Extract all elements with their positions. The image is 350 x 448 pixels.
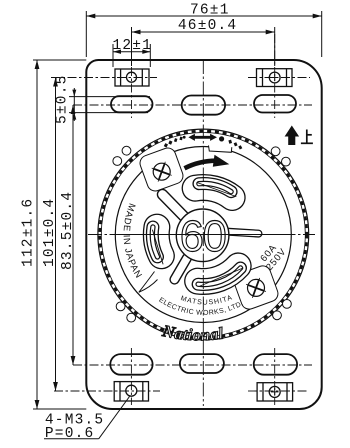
left blade slot [152, 227, 163, 264]
curved text MADE IN JAPAN [122, 190, 145, 285]
svg-text:60: 60 [180, 213, 226, 261]
face screw top-left [148, 158, 175, 185]
receptacle ear bump bottom-left b [127, 313, 136, 322]
centerline top screws horizontal [51, 77, 157, 79]
top-left oval knockout [111, 96, 153, 112]
screw pocket top-left [138, 146, 185, 193]
receptacle ear bump top-right a [271, 147, 280, 156]
arm upper-left [163, 195, 185, 217]
thick clockwise arrow [185, 161, 217, 169]
mounting plate outline [86, 60, 321, 409]
kanji UE (up) drawn with strokes [301, 130, 313, 144]
bottom-right screw tab [257, 383, 293, 401]
top-right screw tab [257, 69, 293, 87]
dimension 101±0.4 (left, rotated) [42, 78, 58, 392]
bottom-left oval knockout [110, 354, 152, 375]
dimension 76±1 [86, 3, 321, 58]
centerline top-right screw vertical [274, 34, 276, 118]
National logo [156, 321, 242, 345]
centerline bottom ovals horizontal [73, 364, 312, 366]
receptacle ear bump top-right b [282, 157, 291, 166]
top-center oval knockout [182, 96, 225, 115]
centerline main horizontal [88, 234, 315, 236]
receptacle ear bump bottom-left a [116, 302, 125, 311]
receptacle outer rim circle [98, 129, 309, 340]
top blade slot [197, 183, 236, 197]
rim dot left [183, 136, 186, 139]
ring notch top [209, 142, 232, 152]
face ring circle [115, 147, 291, 323]
center hub circle [176, 209, 229, 262]
top blade slot boss [195, 187, 232, 197]
left blade slot boss [156, 227, 161, 256]
receptacle ear bump top-left a [122, 146, 131, 155]
bottom-right oval knockout [254, 354, 297, 375]
bottom blade slot [198, 268, 243, 287]
screw pocket bottom-right [232, 264, 280, 312]
rim tiny glyphs left [164, 137, 243, 150]
note 4-M3.5 P=0.6 with leader [44, 397, 130, 443]
centerline bottom screws horizontal [54, 390, 160, 392]
text 60A 250V rotated [256, 240, 288, 273]
rim tiny glyphs right [228, 140, 232, 144]
centerline bottom-left screw vertical [130, 348, 132, 405]
svg-text:P=0.6: P=0.6 [45, 426, 95, 442]
top-left screw tab [115, 69, 149, 86]
rim serration dashes [100, 131, 307, 338]
bottom blade slot boss [198, 266, 239, 282]
rim dot right [219, 136, 224, 141]
face screw bottom-right [242, 274, 269, 301]
bottom-center oval knockout [180, 354, 224, 373]
centerline bottom-right screw vertical [274, 348, 276, 405]
dimension 5±0.5 (left small, rotated) [55, 74, 151, 124]
centerline top ovals horizontal [73, 104, 312, 106]
rotation double arrow [188, 134, 217, 141]
receptacle ear bump bottom-right b [273, 311, 282, 320]
svg-text:112±1.6: 112±1.6 [21, 198, 37, 267]
svg-text:5±0.5: 5±0.5 [55, 74, 71, 124]
centerline top-left screw vertical [51, 34, 312, 405]
top-right oval knockout [254, 95, 296, 113]
svg-text:83.5±0.4: 83.5±0.4 [60, 191, 76, 270]
centerline main vertical [88, 60, 315, 406]
arm lower-left [175, 258, 188, 280]
curved text MATSUSHITA [170, 294, 242, 306]
receptacle ear bump top-left b [113, 157, 122, 166]
dimension 112±1.6 (left, rotated) [21, 60, 87, 409]
centerline solid across hub [120, 234, 290, 236]
up arrow symbol [285, 126, 300, 146]
dimension 83.5±0.4 (left, rotated) [60, 105, 76, 365]
arm right [229, 232, 259, 234]
rim inner line [101, 133, 305, 337]
curved text ELECTRIC WORKS LTD [155, 297, 254, 317]
dimension 46±0.4 [132, 18, 275, 66]
dimension 12±1 [113, 38, 153, 67]
ring step lower-left [139, 272, 158, 293]
receptacle ear bump bottom-right a [283, 300, 292, 309]
bottom-left screw tab [114, 382, 148, 401]
